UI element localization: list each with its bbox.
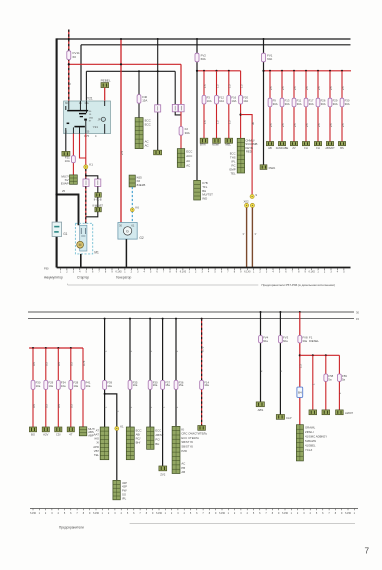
junction dot main feed tap [55, 193, 57, 195]
svg-text:9: 9 [215, 512, 217, 515]
wire: red feeder bus left group [29, 347, 83, 349]
svg-text:4: 4 [337, 271, 339, 274]
svg-text:1.5: 1.5 [215, 120, 219, 124]
svg-text:ZV2: ZV2 [160, 472, 166, 476]
svg-text:K1: K1 [120, 425, 124, 429]
svg-text:8: 8 [335, 512, 337, 515]
connector C white K3 [95, 179, 101, 186]
connector block AT column [100, 427, 109, 460]
connector block col F30b [147, 427, 154, 449]
wire: K3 branch joining starter feed [86, 186, 98, 216]
svg-text:ZV: ZV [292, 146, 296, 150]
svg-text:7: 7 [292, 271, 294, 274]
svg-text:7: 7 [76, 512, 78, 515]
svg-text:0.5: 0.5 [57, 362, 61, 366]
wire: red bus left (to relay area) [69, 63, 181, 65]
svg-text:1: 1 [165, 512, 167, 515]
svg-text:AC: AC [145, 144, 149, 148]
svg-text:4: 4 [208, 271, 210, 274]
svg-text:30A: 30A [185, 131, 190, 135]
svg-text:1.5: 1.5 [203, 120, 207, 124]
connector ZV2 [159, 466, 167, 471]
svg-text:X02: X02 [243, 199, 249, 203]
svg-text:FH: FH [316, 146, 320, 150]
svg-text:4T: 4T [69, 433, 73, 437]
svg-text:10A: 10A [243, 99, 248, 103]
red column F29 ABS/DT [329, 70, 331, 72]
black column F30b [149, 318, 151, 320]
svg-text:2: 2 [297, 512, 299, 515]
connector end F14 [198, 426, 206, 431]
svg-text:10a: 10a [107, 384, 112, 388]
svg-text:RED: RED [246, 149, 252, 153]
wire: starter to ground bus [80, 254, 82, 268]
svg-text:60A: 60A [201, 57, 206, 61]
wire: red bus left end drop [180, 64, 182, 104]
svg-text:4: 4 [95, 134, 97, 138]
connector C white pair left [172, 104, 178, 111]
svg-text:B4: B4 [298, 391, 302, 395]
svg-text:1: 1 [116, 410, 120, 412]
svg-text:2.5: 2.5 [305, 123, 309, 127]
svg-text:б.150: б.150 [30, 512, 37, 515]
svg-text:Аккумулятор: Аккумулятор [44, 275, 63, 279]
svg-text:9: 9 [240, 271, 242, 274]
svg-text:5: 5 [190, 512, 192, 515]
svg-text:7: 7 [328, 512, 330, 515]
svg-text:10a: 10a [133, 383, 138, 387]
black column F35 [129, 318, 131, 320]
svg-text:2: 2 [171, 512, 173, 515]
svg-text:2.5: 2.5 [293, 123, 297, 127]
wire: bottom diagram bus line 30 [28, 311, 354, 313]
red column F29 A2V [45, 347, 47, 349]
svg-text:5: 5 [86, 271, 88, 274]
svg-text:41GBEL: 41GBEL [305, 444, 316, 448]
wire: bus 30 top horizontal [57, 38, 351, 40]
svg-text:10A: 10A [207, 99, 212, 103]
wire: FV1 column [263, 39, 265, 165]
svg-text:8: 8 [83, 512, 85, 515]
wire: busX drop to relay pin 15A [85, 71, 87, 101]
svg-text:30A: 30A [297, 102, 302, 106]
svg-text:BO: BO [31, 433, 36, 437]
svg-text:10a: 10a [61, 384, 66, 388]
svg-text:30a: 30a [302, 339, 307, 343]
wire: column2 from bus30 [157, 39, 159, 150]
svg-text:PZD: PZD [181, 449, 187, 453]
svg-text:4: 4 [247, 512, 249, 515]
connector 8YLG b [95, 207, 101, 212]
wire: black jog under pair [175, 112, 181, 115]
svg-text:DIESEL: DIESEL [309, 339, 319, 343]
svg-text:BH/: BH/ [136, 441, 141, 445]
svg-text:M: M [79, 243, 82, 247]
connector blue B4 on FV8 line [297, 387, 303, 397]
svg-text:0.75: 0.75 [84, 134, 90, 138]
svg-text:Стартер: Стартер [77, 275, 89, 279]
red column F26 FH [317, 70, 319, 72]
red column F34 CD/ [57, 347, 59, 349]
svg-text:2.5: 2.5 [341, 86, 345, 90]
svg-text:3: 3 [177, 512, 179, 515]
svg-text:3: 3 [266, 271, 268, 274]
svg-text:6: 6 [92, 271, 94, 274]
wire: horn branch red [241, 115, 253, 195]
svg-text:1: 1 [189, 271, 191, 274]
svg-text:30A: 30A [345, 102, 350, 106]
svg-text:1.5: 1.5 [240, 84, 244, 88]
connector block col F35 [126, 427, 134, 460]
svg-text:8: 8 [146, 512, 148, 515]
node K1 [84, 165, 88, 169]
svg-text:Y21: Y21 [93, 125, 99, 129]
red drop fuse F59 [338, 355, 340, 410]
svg-text:1: 1 [312, 383, 316, 385]
svg-text:1.5: 1.5 [228, 120, 232, 124]
svg-text:6: 6 [70, 512, 72, 515]
svg-text:7: 7 [227, 271, 229, 274]
fuse F40 [137, 95, 141, 104]
wire: dashed feed to relay pin 30 [68, 30, 70, 102]
svg-text:60: 60 [73, 55, 77, 59]
svg-text:5: 5 [64, 512, 66, 515]
black column FV4 ABS [260, 311, 262, 313]
svg-text:7: 7 [98, 271, 100, 274]
svg-text:2: 2 [108, 512, 110, 515]
starter motor [77, 241, 84, 248]
svg-text:5: 5 [150, 271, 152, 274]
svg-text:1: 1 [124, 271, 126, 274]
wire: battery feed left vertical [56, 38, 58, 267]
svg-text:б.1X0: б.1X0 [244, 271, 251, 274]
wire: relay red drops to node K1 [80, 134, 86, 158]
svg-text:6: 6 [322, 512, 324, 515]
svg-text:АВ: АВ [181, 470, 185, 474]
junction dot busX col F40 [138, 70, 140, 72]
svg-text:2.5: 2.5 [293, 86, 297, 90]
svg-text:1: 1 [317, 271, 319, 274]
svg-text:Генератор: Генератор [116, 275, 131, 279]
node K1 bottom [115, 427, 119, 431]
battery G1 [52, 222, 62, 236]
svg-text:б.1X0: б.1X0 [180, 271, 187, 274]
svg-text:9: 9 [255, 193, 257, 197]
svg-text:1: 1 [39, 512, 41, 515]
svg-text:ABS: ABS [258, 408, 264, 412]
svg-text:K1: K1 [89, 163, 93, 167]
junction dot horn branch [240, 114, 242, 116]
svg-text:YCLZ: YCLZ [305, 448, 312, 452]
wire: column F40 [138, 71, 140, 117]
svg-text:0.5: 0.5 [57, 404, 61, 408]
svg-text:6: 6 [133, 512, 135, 515]
connector C white col2 [155, 105, 161, 112]
svg-text:2: 2 [66, 271, 68, 274]
svg-text:10a: 10a [204, 383, 209, 387]
wire: bottom diagram bus line 15 [28, 318, 354, 320]
svg-text:2.5: 2.5 [317, 123, 321, 127]
svg-text:HB: HB [268, 146, 272, 150]
svg-text:A2V: A2V [43, 433, 48, 437]
leader line bottom diagram [130, 523, 355, 525]
svg-text:NSW/: NSW/ [212, 143, 219, 147]
ground bus tick marks and pin numbers [61, 268, 344, 270]
svg-text:AC: AC [186, 159, 190, 163]
svg-text:ECC: ECC [145, 123, 151, 127]
dashed column F14 [201, 318, 203, 320]
wire: relay pin31 black drop [65, 134, 67, 152]
junction dot redbus2 at FV2 col [196, 70, 198, 72]
svg-text:30: 30 [356, 311, 359, 315]
connector block ECC/THS tall [237, 138, 244, 173]
svg-text:30A: 30A [321, 102, 326, 106]
red drop fuse F58 [325, 354, 327, 356]
connector block tall IO/CRC [172, 426, 180, 473]
svg-text:MEL: MEL [225, 143, 231, 147]
svg-text:1: 1 [354, 512, 356, 515]
connector block ECC/AC column1 [135, 118, 143, 149]
svg-text:30: 30 [251, 121, 255, 125]
svg-text:2.5: 2.5 [341, 123, 345, 127]
svg-text:15A: 15A [142, 98, 147, 102]
svg-text:0.5: 0.5 [70, 404, 74, 408]
svg-text:7: 7 [139, 512, 141, 515]
wire: thick starter main feed [57, 195, 79, 226]
svg-text:2: 2 [234, 512, 236, 515]
svg-text:9: 9 [176, 271, 178, 274]
svg-text:5: 5 [214, 271, 216, 274]
svg-text:30A: 30A [333, 102, 338, 106]
red column F9 HB [269, 70, 271, 72]
wire: PEBEL red drop to relay [104, 88, 106, 101]
node horn feed [250, 194, 254, 198]
svg-text:9: 9 [152, 512, 154, 515]
red column F16 [228, 70, 230, 72]
fuse FV11 [67, 51, 71, 60]
svg-text:2.5: 2.5 [120, 150, 124, 155]
svg-text:1: 1 [253, 271, 255, 274]
svg-text:5: 5 [343, 271, 345, 274]
connector 8YLG a [95, 193, 101, 198]
connector ECC col2 [154, 150, 162, 155]
svg-text:2: 2 [45, 512, 47, 515]
wire: FV2 column [196, 39, 198, 180]
junction dot bus30/dashed [68, 38, 70, 40]
junction dot redbus/red gen [120, 63, 122, 65]
svg-text:ECC: ECC [155, 429, 161, 433]
svg-text:6: 6 [285, 271, 287, 274]
svg-text:2: 2 [324, 271, 326, 274]
svg-text:2.5: 2.5 [281, 86, 285, 90]
svg-text:G2: G2 [139, 236, 143, 240]
svg-text:б.1X0: б.1X0 [115, 271, 122, 274]
svg-text:5: 5 [127, 512, 129, 515]
svg-text:3: 3 [114, 512, 116, 515]
svg-text:FANF/ABE: FANF/ABE [276, 146, 289, 150]
svg-text:2.5: 2.5 [269, 123, 273, 127]
svg-text:1: 1 [338, 392, 342, 394]
svg-text:10a: 10a [36, 384, 41, 388]
svg-text:ZIPELI: ZIPELI [305, 430, 314, 434]
leader line bottom of top diagram [68, 284, 259, 286]
svg-text:4: 4 [241, 233, 245, 235]
connector C white K2 [83, 179, 89, 186]
svg-text:1: 1 [291, 512, 293, 515]
svg-text:60a: 60a [263, 339, 268, 343]
svg-text:0.5: 0.5 [45, 362, 49, 366]
svg-text:3: 3 [303, 512, 305, 515]
wire: busX end drop to connector [174, 71, 176, 104]
svg-text:4: 4 [310, 512, 312, 515]
svg-text:41/SMC ADBKEY: 41/SMC ADBKEY [305, 435, 327, 439]
connector DWA [260, 165, 267, 170]
svg-text:IPL: IPL [122, 496, 127, 500]
svg-text:8: 8 [234, 271, 236, 274]
relay internal contact bars [67, 110, 88, 112]
black column F39 with branch to K1 [104, 318, 106, 320]
junction dot bus30 FV1 col [263, 38, 265, 40]
svg-text:DWA: DWA [269, 166, 276, 170]
svg-text:15a: 15a [165, 383, 170, 387]
svg-text:BH: BH [155, 442, 159, 446]
svg-text:5: 5 [253, 512, 255, 515]
svg-text:6: 6 [156, 271, 158, 274]
svg-text:8: 8 [272, 512, 274, 515]
svg-text:9: 9 [111, 271, 113, 274]
svg-text:M1: M1 [94, 251, 99, 255]
svg-text:1: 1 [60, 271, 62, 274]
svg-text:5a: 5a [328, 378, 332, 382]
svg-text:CLP: CLP [286, 416, 292, 420]
svg-text:10a: 10a [73, 384, 78, 388]
connector K65 3pin [129, 175, 135, 187]
svg-text:AC: AC [186, 163, 190, 167]
starter solenoid [80, 225, 87, 251]
svg-text:3: 3 [330, 271, 332, 274]
svg-text:2: 2 [195, 271, 197, 274]
node K6 [130, 208, 134, 212]
wire: dashed starter solenoid feed [85, 169, 87, 179]
svg-text:2.5: 2.5 [317, 86, 321, 90]
svg-text:7: 7 [202, 512, 204, 515]
red column F28 4T [70, 347, 72, 349]
relay coil circle [101, 117, 105, 121]
svg-text:2.5: 2.5 [281, 123, 285, 127]
junction dot redbus3 FV1 [262, 70, 264, 72]
svg-text:CD/: CD/ [56, 433, 61, 437]
red column F3 [203, 70, 205, 72]
svg-text:7: 7 [265, 512, 267, 515]
svg-text:A2007: A2007 [345, 411, 354, 415]
svg-text:30A: 30A [285, 102, 290, 106]
svg-text:ECC: ECC [186, 150, 192, 154]
svg-text:3: 3 [137, 271, 139, 274]
svg-text:1.5: 1.5 [203, 84, 207, 88]
junction dot dashed/K3 link [85, 175, 87, 177]
svg-text:6: 6 [196, 512, 198, 515]
svg-text:0.5: 0.5 [70, 362, 74, 366]
svg-text:G1: G1 [63, 232, 67, 236]
fuse F2 [179, 127, 183, 136]
svg-text:4: 4 [144, 271, 146, 274]
svg-text:5: 5 [316, 512, 318, 515]
starter M1 dashed housing [75, 223, 92, 254]
svg-text:6: 6 [221, 271, 223, 274]
red column F17 FH [305, 70, 307, 72]
svg-text:25: 25 [62, 189, 66, 193]
black column F37 long to ZV2 [162, 318, 164, 320]
svg-text:0.5: 0.5 [32, 404, 36, 408]
svg-text:б.150: б.150 [345, 512, 352, 515]
wire: red through fuse F2 [180, 112, 182, 149]
svg-text:30A: 30A [309, 102, 314, 106]
red column F30 BS [341, 70, 343, 72]
svg-text:GRAWL: GRAWL [305, 426, 316, 430]
connector block GRAWL [296, 425, 303, 461]
wire: bus15 drop to relay pin [80, 45, 82, 101]
connector block K7B [194, 180, 201, 200]
wire: generator to ground bus [125, 239, 127, 267]
svg-text:PC/: PC/ [155, 437, 160, 441]
generator G2 [118, 223, 137, 240]
svg-text:TEL: TEL [230, 171, 236, 175]
svg-text:51BA2W: 51BA2W [305, 439, 316, 443]
wire: branch to node K1 [105, 394, 117, 481]
svg-text:4: 4 [58, 512, 60, 515]
svg-text:PEBEL: PEBEL [101, 79, 111, 83]
svg-text:2.5: 2.5 [269, 86, 273, 90]
svg-text:Y21: Y21 [87, 97, 93, 101]
svg-text:20a: 20a [153, 383, 158, 387]
svg-text:Предохранители Р57-Р96 (в дизе: Предохранители Р57-Р96 (в дизельном испо… [262, 283, 335, 287]
red drop no fuse [312, 354, 314, 356]
svg-text:JP: JP [98, 117, 101, 121]
svg-text:2.5: 2.5 [329, 123, 333, 127]
wire: relay red drop to fuse F21 [72, 134, 74, 175]
svg-text:4: 4 [184, 512, 186, 515]
svg-text:б.1X0: б.1X0 [309, 271, 316, 274]
svg-text:3: 3 [73, 271, 75, 274]
svg-text:7: 7 [163, 271, 165, 274]
red column F12 [216, 70, 218, 72]
svg-text:15A: 15A [89, 116, 93, 119]
svg-text:3: 3 [240, 512, 242, 515]
wire: horn wire 1 brown [246, 208, 248, 268]
black column F36 tall block [175, 318, 177, 320]
red column FV8 main [299, 311, 301, 313]
wire: red bus right group [264, 70, 352, 72]
wire: horn wire 2 brown [251, 208, 253, 268]
svg-text:8: 8 [169, 271, 171, 274]
svg-text:б.150: б.150 [219, 512, 226, 515]
svg-text:60a: 60a [283, 339, 288, 343]
black column FV3 CLP [279, 311, 281, 313]
svg-text:3: 3 [51, 512, 53, 515]
svg-text:60A: 60A [267, 57, 272, 61]
svg-text:2.5: 2.5 [305, 86, 309, 90]
wire: red bus middle group [197, 70, 241, 72]
svg-text:4: 4 [121, 512, 123, 515]
wire: bus X third horizontal [86, 70, 175, 72]
svg-text:84E2B: 84E2B [137, 183, 146, 187]
svg-text:0.5: 0.5 [32, 362, 36, 366]
svg-text:2: 2 [259, 271, 261, 274]
ground bus 31 [57, 267, 351, 269]
svg-text:9: 9 [278, 512, 280, 515]
svg-text:б.150: б.150 [93, 512, 100, 515]
svg-text:5a: 5a [342, 378, 346, 382]
